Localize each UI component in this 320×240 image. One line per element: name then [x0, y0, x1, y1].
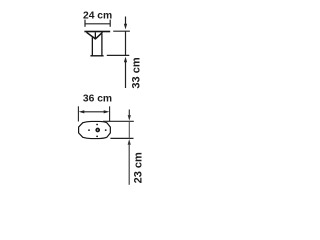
- dimension 33 cm connector line: [125, 31, 127, 55]
- svg-text:36 cm: 36 cm: [83, 94, 112, 105]
- basin top rim: [84, 31, 110, 33]
- dimension 23 cm connector line: [128, 121, 130, 138]
- dimension line 36 cm with outward arrows: [78, 106, 109, 121]
- basin funnel V right arm: [95, 32, 102, 39]
- extension line bottom of pedestal (33 cm): [107, 54, 130, 56]
- svg-text:23 cm: 23 cm: [132, 152, 144, 183]
- dimension 33 cm upper arrow (points down): [124, 17, 127, 30]
- extension line top of oval (23 cm): [103, 120, 134, 122]
- centre drain circle: [96, 129, 99, 132]
- pedestal left edge: [91, 37, 93, 56]
- funnel centre line: [94, 32, 96, 39]
- pedestal base line: [90, 55, 103, 57]
- dimension 33 cm lower arrow (points up): [124, 57, 127, 88]
- svg-text:33 cm: 33 cm: [130, 57, 142, 88]
- extension line bottom of oval (23 cm): [110, 137, 133, 139]
- hole dot top: [96, 124, 98, 126]
- svg-text:24 cm: 24 cm: [83, 10, 112, 21]
- hole dot bottom: [96, 136, 98, 138]
- hole dot left: [88, 129, 90, 131]
- basin funnel V left arm: [87, 32, 96, 39]
- hole dot right: [105, 129, 107, 131]
- extension line top of basin (33 cm): [113, 30, 130, 32]
- oval basin top view outline: [79, 121, 111, 138]
- dimension 23 cm lower arrow (points up): [128, 139, 131, 185]
- pedestal right edge: [101, 34, 103, 56]
- dimension line 24 cm: [85, 20, 110, 27]
- dimension 23 cm upper arrow (points down): [128, 110, 131, 121]
